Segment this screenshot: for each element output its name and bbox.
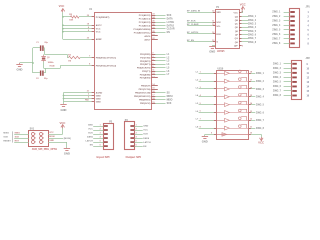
svg-text:SCK: SCK bbox=[167, 15, 172, 17]
svg-text:SP_SCK: SP_SCK bbox=[187, 20, 196, 22]
wire U2 input 1 net L1 bbox=[196, 72, 217, 74]
svg-text:ZING_1: ZING_1 bbox=[273, 64, 282, 66]
power VCC (P1) bbox=[240, 3, 246, 11]
connector JP2 pin 3 wire net ZING_3 bbox=[273, 72, 310, 75]
svg-text:L6: L6 bbox=[167, 71, 170, 73]
wire net SP_SCK to P1 pin 11 bbox=[187, 20, 221, 24]
svg-text:17: 17 bbox=[250, 79, 252, 81]
connector SV1 pin circles bbox=[32, 133, 45, 144]
svg-text:16: 16 bbox=[241, 11, 243, 13]
svg-text:5: 5 bbox=[100, 140, 101, 142]
svg-text:16: 16 bbox=[152, 91, 154, 93]
label Input SPI bbox=[97, 155, 110, 159]
ground GND2 (IC) bbox=[60, 105, 66, 112]
svg-text:7: 7 bbox=[308, 39, 310, 41]
svg-text:GND: GND bbox=[96, 101, 101, 103]
svg-text:10: 10 bbox=[307, 68, 310, 70]
svg-text:QB: QB bbox=[235, 20, 239, 22]
svg-text:28: 28 bbox=[152, 31, 154, 33]
svg-text:MISO: MISO bbox=[15, 132, 21, 134]
svg-text:4: 4 bbox=[136, 135, 137, 138]
svg-text:SCK: SCK bbox=[167, 103, 172, 105]
connector P2 pin 2 wire net VCC bbox=[88, 128, 108, 131]
connector P3 pin 1 wire net GND bbox=[130, 124, 148, 127]
svg-text:12: 12 bbox=[152, 73, 154, 75]
wire U2 input 2 net L2 bbox=[196, 79, 217, 81]
svg-text:14: 14 bbox=[307, 85, 310, 88]
crystal Q1 bbox=[41, 55, 54, 68]
svg-text:5: 5 bbox=[308, 30, 310, 32]
svg-text:[MOSI]: [MOSI] bbox=[64, 138, 71, 140]
svg-text:ADC6: ADC6 bbox=[144, 35, 151, 38]
connector P3 pin 5 wire net LATCH bbox=[130, 140, 151, 143]
connector P2 pin 5 wire net LATCH bbox=[86, 139, 108, 142]
svg-text:ZING_7: ZING_7 bbox=[248, 38, 257, 40]
svg-text:9: 9 bbox=[211, 133, 212, 135]
resistor R3 bbox=[69, 14, 79, 22]
connector JP1 body bbox=[290, 6, 311, 48]
svg-text:ZING_5: ZING_5 bbox=[248, 31, 257, 33]
transistor pair U2 channel 5 bbox=[216, 101, 249, 106]
svg-text:11: 11 bbox=[212, 20, 214, 22]
ic U1 right pin/wire PD2(INT0) pin 4 net L3 bbox=[140, 58, 170, 62]
ic U1 right pin/wire PC4(ADC4/SDA) pin 27 net CLEAR bbox=[133, 28, 174, 31]
svg-text:L3: L3 bbox=[196, 87, 199, 89]
wire U2 GND pin 9 bbox=[205, 133, 216, 135]
svg-text:QE: QE bbox=[235, 31, 239, 33]
svg-text:1: 1 bbox=[136, 124, 137, 126]
connector JP1 pin 4 wire net ZING_4 bbox=[272, 24, 309, 27]
ic U1 right pin/wire PB0(ICP) pin 14 bbox=[141, 83, 158, 87]
svg-text:16MHz: 16MHz bbox=[48, 62, 54, 64]
svg-text:ZING_2: ZING_2 bbox=[256, 81, 265, 83]
svg-text:VCC: VCC bbox=[258, 141, 264, 145]
ic U1 right pin/wire PD3(INT1) pin 5 net L4 bbox=[140, 63, 170, 66]
svg-text:23: 23 bbox=[152, 14, 154, 16]
svg-text:21: 21 bbox=[87, 91, 89, 93]
svg-text:Q1: Q1 bbox=[47, 57, 50, 59]
pin number 6 bbox=[88, 30, 89, 32]
svg-text:ZING_2: ZING_2 bbox=[272, 16, 281, 18]
connector P3 pin 3 wire net SCK bbox=[130, 132, 148, 135]
svg-text:11: 11 bbox=[152, 70, 154, 72]
connector JP1 pin 2 wire net ZING_2 bbox=[272, 16, 309, 19]
svg-text:SCK: SCK bbox=[143, 134, 148, 136]
svg-text:SCK: SCK bbox=[15, 136, 20, 138]
svg-text:2: 2 bbox=[100, 128, 101, 130]
svg-text:PB2(SS/OC1B): PB2(SS/OC1B) bbox=[135, 93, 151, 95]
svg-text:QF: QF bbox=[235, 35, 239, 37]
svg-text:7: 7 bbox=[89, 56, 90, 58]
ground GND4 (U2) bbox=[202, 134, 208, 143]
ic U1 right pin/wire PB2(SS/OC1B) pin 16 net SS bbox=[135, 91, 170, 94]
ic U1 right pin/wire PD4(XCK/T0) pin 6 net L5 bbox=[137, 66, 170, 69]
wire SV1 MISO input bbox=[3, 132, 28, 134]
svg-text:PD3(INT1): PD3(INT1) bbox=[140, 64, 151, 66]
ic U2 common free-wheel bus bbox=[216, 133, 249, 136]
svg-text:17: 17 bbox=[152, 95, 154, 97]
svg-text:SP_DATA_IN: SP_DATA_IN bbox=[187, 9, 201, 12]
svg-text:ZING_4: ZING_4 bbox=[273, 76, 282, 79]
svg-text:MOSI: MOSI bbox=[49, 136, 55, 138]
svg-text:13: 13 bbox=[212, 40, 214, 42]
svg-text:7: 7 bbox=[200, 118, 201, 120]
connector JP1 pin 5 wire net ZING_5 bbox=[272, 29, 309, 32]
ic U2 ULN2803 body bbox=[217, 67, 249, 139]
ic P1 74HC595 body bbox=[216, 6, 240, 53]
svg-text:L4: L4 bbox=[167, 63, 170, 66]
svg-text:PC6(/RESET): PC6(/RESET) bbox=[96, 17, 110, 19]
svg-text:VCC: VCC bbox=[88, 128, 93, 130]
ic U1 right pin/wire PB3(MOSI/OC2) pin 17 net MOSI bbox=[134, 95, 173, 98]
wire VCC rail to VCC pin 6 bbox=[63, 31, 94, 33]
svg-text:AGND: AGND bbox=[96, 91, 103, 94]
ic U1 right pin/wire ADC7 pin 22 bbox=[144, 38, 157, 41]
svg-text:L7: L7 bbox=[196, 119, 199, 121]
svg-text:L7: L7 bbox=[167, 74, 170, 76]
svg-text:PD0(RXD): PD0(RXD) bbox=[140, 54, 151, 56]
svg-text:19: 19 bbox=[152, 34, 154, 36]
svg-text:QD: QD bbox=[235, 27, 239, 29]
svg-text:3: 3 bbox=[152, 56, 153, 58]
svg-text:5: 5 bbox=[136, 140, 137, 142]
svg-text:JP1: JP1 bbox=[306, 6, 311, 9]
svg-text:PB6(XTAL1/TOSC1): PB6(XTAL1/TOSC1) bbox=[96, 56, 117, 59]
pin number 3 bbox=[88, 94, 89, 96]
ic U1 right pin/wire PD6(AIN0) pin 12 net L7 bbox=[140, 73, 170, 76]
wire SV1 MOSI bbox=[48, 136, 71, 140]
svg-text:5: 5 bbox=[152, 63, 153, 65]
wire U2 output 7 net ZING_7 bbox=[249, 119, 265, 123]
capacitor C1 bbox=[36, 42, 48, 51]
pin number PAD bbox=[85, 99, 89, 102]
connector JP2 pin 7 wire net ZING_7 bbox=[273, 90, 310, 93]
svg-text:L6: L6 bbox=[196, 111, 199, 113]
svg-text:5: 5 bbox=[200, 103, 201, 105]
svg-text:1: 1 bbox=[35, 134, 36, 136]
capacitor C2 bbox=[36, 71, 48, 81]
svg-text:L4: L4 bbox=[196, 94, 199, 97]
ic U1 left pin names bbox=[96, 17, 117, 104]
svg-text:13: 13 bbox=[307, 82, 310, 84]
connector JP2 pin 5 wire net ZING_5 bbox=[273, 81, 310, 84]
wire net SP_CLEAR to P1 pin 10 bbox=[187, 23, 221, 28]
svg-text:PD5(T1): PD5(T1) bbox=[142, 71, 151, 73]
svg-text:SCK: SCK bbox=[3, 137, 8, 139]
svg-text:L5: L5 bbox=[167, 67, 170, 69]
label Output SPI bbox=[125, 155, 141, 159]
svg-text:ZING_3: ZING_3 bbox=[272, 21, 281, 23]
power VCC (SV1) bbox=[60, 121, 66, 128]
svg-text:20: 20 bbox=[87, 38, 89, 40]
svg-text:3: 3 bbox=[200, 87, 201, 89]
svg-text:PC0(ADC0): PC0(ADC0) bbox=[139, 14, 151, 17]
transistor pair U2 channel 6 bbox=[216, 109, 249, 114]
svg-text:PB7(XTAL2/TOSC2): PB7(XTAL2/TOSC2) bbox=[96, 64, 117, 67]
svg-text:3: 3 bbox=[35, 138, 36, 140]
pin number 7 bbox=[89, 56, 90, 58]
svg-text:GND: GND bbox=[88, 124, 93, 126]
svg-text:6: 6 bbox=[200, 111, 201, 113]
wire U2 input 4 net L4 bbox=[196, 94, 217, 97]
svg-text:DATA: DATA bbox=[87, 135, 93, 138]
svg-text:8: 8 bbox=[89, 64, 90, 66]
wire net SP_EN to P1 pin 13 bbox=[187, 40, 219, 44]
svg-text:AVR_SPI_PRG_6PTH: AVR_SPI_PRG_6PTH bbox=[32, 148, 57, 151]
wire P1 QB net ZING_2 bbox=[235, 20, 257, 22]
svg-text:2: 2 bbox=[136, 128, 137, 130]
ic U1 right pin/wire PD1(TXD) pin 3 net L2 bbox=[140, 56, 170, 59]
connector JP2 pin 6 wire net ZING_6 bbox=[273, 85, 310, 88]
svg-text:14: 14 bbox=[212, 9, 215, 12]
svg-text:ZING_4: ZING_4 bbox=[256, 96, 265, 99]
svg-text:ZING_6: ZING_6 bbox=[273, 86, 282, 88]
svg-text:SP_EN: SP_EN bbox=[187, 40, 195, 42]
connector P3 pin 4 wire net DATA bbox=[130, 135, 149, 139]
svg-text:MOSI: MOSI bbox=[167, 96, 173, 98]
svg-text:CLEAR: CLEAR bbox=[167, 28, 175, 31]
svg-text:L2: L2 bbox=[196, 80, 199, 82]
svg-text:L3: L3 bbox=[167, 61, 170, 63]
wire P1 QG net ZING_7 bbox=[235, 38, 257, 40]
wire SV1 RST input bbox=[3, 140, 28, 142]
wire C2 to XTAL2 node bbox=[44, 68, 46, 73]
svg-text:AREF: AREF bbox=[96, 38, 103, 41]
svg-text:QG: QG bbox=[235, 38, 239, 40]
svg-text:18: 18 bbox=[152, 98, 154, 100]
wire U2 output 1 net ZING_1 bbox=[249, 72, 265, 76]
svg-text:13: 13 bbox=[152, 76, 154, 78]
svg-text:PB5(SCK): PB5(SCK) bbox=[140, 103, 151, 105]
wire SV1 VCC bbox=[48, 127, 63, 134]
svg-text:Input SPI: Input SPI bbox=[97, 155, 110, 159]
svg-text:SCL: SCL bbox=[216, 26, 221, 28]
svg-text:4: 4 bbox=[43, 137, 44, 140]
svg-text:22p: 22p bbox=[44, 42, 48, 44]
svg-text:GND: GND bbox=[202, 140, 208, 144]
wire IC ground bundle bbox=[63, 93, 95, 105]
svg-text:QH: QH bbox=[235, 42, 239, 44]
wire U2 output 8 net ZING_8 bbox=[249, 126, 265, 130]
connector P2 pin 3 wire net SCK bbox=[88, 132, 108, 135]
wire R2 to XTAL1 pin 7 bbox=[80, 57, 94, 59]
svg-text:6: 6 bbox=[88, 30, 89, 32]
wire net SP_DATA_IN to P1 pin 14 bbox=[187, 9, 221, 14]
svg-text:ZING_6: ZING_6 bbox=[256, 112, 265, 114]
power VCC (top-left supply) bbox=[59, 4, 65, 12]
connector JP1 pin 1 wire net ZING_1 bbox=[272, 11, 309, 14]
svg-text:LATCH: LATCH bbox=[167, 21, 175, 24]
wire U2 input 6 net L6 bbox=[196, 111, 217, 113]
svg-text:GND: GND bbox=[96, 98, 101, 100]
wire rail to C1 bbox=[33, 47, 40, 49]
connector P2 pin 6 wire net EN bbox=[90, 144, 108, 147]
svg-text:ZING_7: ZING_7 bbox=[273, 91, 282, 93]
wire GND1 to rail bbox=[20, 62, 34, 64]
svg-text:12: 12 bbox=[307, 77, 310, 79]
svg-text:GND: GND bbox=[17, 68, 23, 72]
ic U1 right pin/wire PC0(ADC0) pin 23 net SCK bbox=[139, 14, 172, 17]
wire U2 output 5 net ZING_5 bbox=[249, 102, 265, 107]
svg-text:10: 10 bbox=[250, 133, 252, 135]
svg-text:18: 18 bbox=[87, 24, 89, 26]
ic U1 right pin/wire ADC6 pin 19 bbox=[144, 34, 157, 37]
svg-text:ZING_7: ZING_7 bbox=[272, 39, 281, 41]
wire VCC rail to VCC pin 4 bbox=[63, 28, 94, 30]
svg-text:16: 16 bbox=[250, 87, 252, 89]
svg-text:L8: L8 bbox=[196, 127, 199, 129]
svg-text:PC2(ADC2): PC2(ADC2) bbox=[139, 21, 151, 24]
svg-text:ZING_7: ZING_7 bbox=[256, 120, 265, 122]
svg-text:L5: L5 bbox=[196, 103, 199, 105]
svg-text:U$10: U$10 bbox=[218, 67, 224, 70]
svg-text:PC5(ADC5/SCL): PC5(ADC5/SCL) bbox=[134, 31, 151, 34]
connector P2 pin 1 wire net GND bbox=[88, 124, 108, 127]
svg-text:RST: RST bbox=[15, 140, 20, 142]
wire P1 QH net ZING_8 bbox=[235, 42, 257, 44]
svg-text:4: 4 bbox=[152, 58, 154, 61]
svg-text:6: 6 bbox=[136, 144, 137, 146]
svg-text:22p: 22p bbox=[44, 78, 48, 80]
transistor pair U2 channel 2 bbox=[216, 78, 249, 84]
svg-text:3: 3 bbox=[308, 21, 310, 23]
svg-text:DATA2: DATA2 bbox=[167, 24, 175, 27]
svg-text:PC1(ADC1): PC1(ADC1) bbox=[139, 18, 151, 21]
svg-text:L1: L1 bbox=[167, 54, 170, 56]
svg-text:15: 15 bbox=[250, 95, 252, 97]
connector P3 pin 2 wire net VCC bbox=[130, 128, 148, 131]
svg-text:ZING_5: ZING_5 bbox=[273, 82, 282, 84]
svg-text:18: 18 bbox=[250, 72, 252, 74]
svg-text:Output SPI: Output SPI bbox=[125, 155, 141, 159]
transistor pair U2 channel 7 bbox=[216, 117, 249, 123]
svg-text:1: 1 bbox=[308, 12, 310, 14]
wire P1 QE net ZING_5 bbox=[235, 31, 257, 33]
svg-text:5: 5 bbox=[88, 97, 89, 99]
svg-text:VCC: VCC bbox=[96, 32, 101, 34]
svg-text:6: 6 bbox=[43, 142, 44, 144]
pin number 29 bbox=[87, 15, 89, 17]
svg-text:ZING_8: ZING_8 bbox=[272, 43, 281, 45]
svg-text:R3: R3 bbox=[69, 14, 73, 16]
svg-text:PB4(MISO): PB4(MISO) bbox=[139, 99, 151, 102]
svg-text:5: 5 bbox=[35, 142, 36, 144]
ic U1 right pin/wire PB4(MISO) pin 18 net MISO bbox=[139, 98, 173, 101]
svg-text:PD2(INT0): PD2(INT0) bbox=[140, 61, 151, 63]
svg-text:15: 15 bbox=[152, 88, 154, 90]
svg-text:GND: GND bbox=[61, 108, 67, 112]
connector JP2 pin 1 wire net ZING_1 bbox=[273, 63, 309, 66]
svg-text:SP_CLEAR: SP_CLEAR bbox=[187, 23, 199, 26]
svg-text:11: 11 bbox=[250, 126, 252, 128]
svg-text:2: 2 bbox=[43, 134, 44, 136]
svg-text:HC595: HC595 bbox=[217, 50, 225, 53]
ic U1 right pin/wire PC2(ADC2) pin 25 net LATCH bbox=[139, 21, 175, 24]
wire crystal top stub bbox=[43, 53, 45, 56]
svg-text:ZING_5: ZING_5 bbox=[272, 30, 281, 32]
svg-text:ZING_5: ZING_5 bbox=[256, 104, 265, 106]
svg-text:ZING_4: ZING_4 bbox=[248, 26, 257, 29]
svg-text:JP2: JP2 bbox=[306, 57, 311, 60]
svg-text:VCC: VCC bbox=[59, 4, 65, 8]
svg-text:3: 3 bbox=[136, 132, 137, 134]
ic U1 right pin/wire PB1(OC1A) pin 15 bbox=[139, 88, 158, 91]
svg-text:ZING_1: ZING_1 bbox=[272, 12, 281, 14]
svg-text:ZING_6: ZING_6 bbox=[272, 34, 281, 36]
svg-text:1M: 1M bbox=[68, 60, 71, 62]
connector P3 pin 6 wire net EN bbox=[130, 144, 146, 147]
svg-text:U1: U1 bbox=[89, 8, 93, 11]
wire U2 output 6 net ZING_6 bbox=[249, 111, 265, 115]
svg-text:3: 3 bbox=[88, 94, 89, 96]
svg-text:26: 26 bbox=[152, 24, 154, 26]
svg-text:2: 2 bbox=[152, 53, 153, 55]
svg-text:SP_LATCH: SP_LATCH bbox=[187, 31, 199, 34]
svg-text:GND: GND bbox=[143, 126, 148, 128]
svg-text:ZING_4: ZING_4 bbox=[272, 24, 281, 27]
svg-text:VCC: VCC bbox=[49, 132, 54, 134]
transistor pair U2 channel 1 bbox=[216, 70, 249, 75]
svg-text:PC4(ADC4/SDA): PC4(ADC4/SDA) bbox=[133, 28, 150, 31]
wire U2 output 3 net ZING_3 bbox=[249, 87, 265, 91]
svg-text:SCK: SCK bbox=[88, 132, 93, 134]
svg-text:ZING_1: ZING_1 bbox=[248, 16, 257, 18]
wire XTAL2 node to pin 8 bbox=[60, 65, 94, 67]
svg-text:6: 6 bbox=[100, 144, 101, 146]
svg-text:EN: EN bbox=[90, 145, 93, 147]
ic U1 right pin/wire PD0(RXD) pin 2 net L1 bbox=[140, 53, 170, 56]
ic P1 pin VCC 16 bbox=[234, 11, 244, 15]
connector JP1 pin 7 wire net ZING_7 bbox=[272, 38, 309, 41]
svg-text:GND: GND bbox=[49, 140, 54, 142]
svg-text:13: 13 bbox=[250, 111, 252, 113]
power VCC (U2 COM) bbox=[258, 137, 264, 145]
svg-text:C1: C1 bbox=[36, 42, 39, 44]
ground GND3 (P1) bbox=[209, 45, 215, 53]
svg-text:PD4(XCK/T0): PD4(XCK/T0) bbox=[137, 67, 151, 70]
connector P2 pin 4 wire net DATA bbox=[87, 135, 108, 139]
ic U1 body bbox=[89, 8, 152, 109]
svg-text:ZING_3: ZING_3 bbox=[256, 89, 265, 91]
svg-text:SS: SS bbox=[167, 92, 171, 94]
svg-text:EN: EN bbox=[167, 32, 171, 34]
svg-text:9: 9 bbox=[242, 45, 243, 47]
ic U1 right pin/wire PD5(T1) pin 11 net L6 bbox=[142, 70, 170, 73]
resistor R2 bbox=[67, 54, 80, 62]
svg-text:QA: QA bbox=[235, 15, 239, 18]
svg-text:PB0(ICP): PB0(ICP) bbox=[141, 85, 151, 87]
svg-text:HC49: HC49 bbox=[50, 64, 55, 67]
wire R3 to RESET pin 29 bbox=[79, 16, 94, 18]
svg-text:RESET: RESET bbox=[3, 141, 11, 143]
svg-text:ZING_8: ZING_8 bbox=[273, 95, 282, 97]
svg-text:P1: P1 bbox=[216, 6, 220, 9]
svg-text:C2: C2 bbox=[36, 78, 39, 80]
svg-text:1: 1 bbox=[100, 124, 101, 126]
svg-text:11: 11 bbox=[307, 73, 310, 75]
ic U1 right pin/wire PC5(ADC5/SCL) pin 28 net EN bbox=[134, 31, 170, 34]
wire rail to C2 bbox=[33, 72, 40, 74]
svg-text:VCC: VCC bbox=[234, 13, 239, 15]
svg-text:PD1(TXD): PD1(TXD) bbox=[140, 57, 150, 59]
transistor pair U2 channel 3 bbox=[216, 86, 249, 91]
wire P1 QA net ZING_1 bbox=[235, 15, 257, 18]
svg-text:VCC: VCC bbox=[240, 3, 246, 7]
wire net SP_LATCH to P1 pin 12 bbox=[187, 31, 222, 36]
svg-text:25: 25 bbox=[152, 21, 154, 23]
connector SV1 body bbox=[29, 127, 49, 146]
svg-text:PC3(ADC3): PC3(ADC3) bbox=[139, 24, 151, 27]
